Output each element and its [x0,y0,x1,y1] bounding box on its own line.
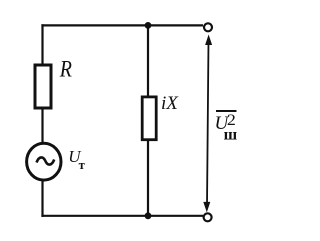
svg-text:iX: iX [161,93,179,114]
svg-text:R: R [59,56,72,82]
svg-text:т: т [79,158,85,172]
svg-text:ш: ш [224,127,238,144]
